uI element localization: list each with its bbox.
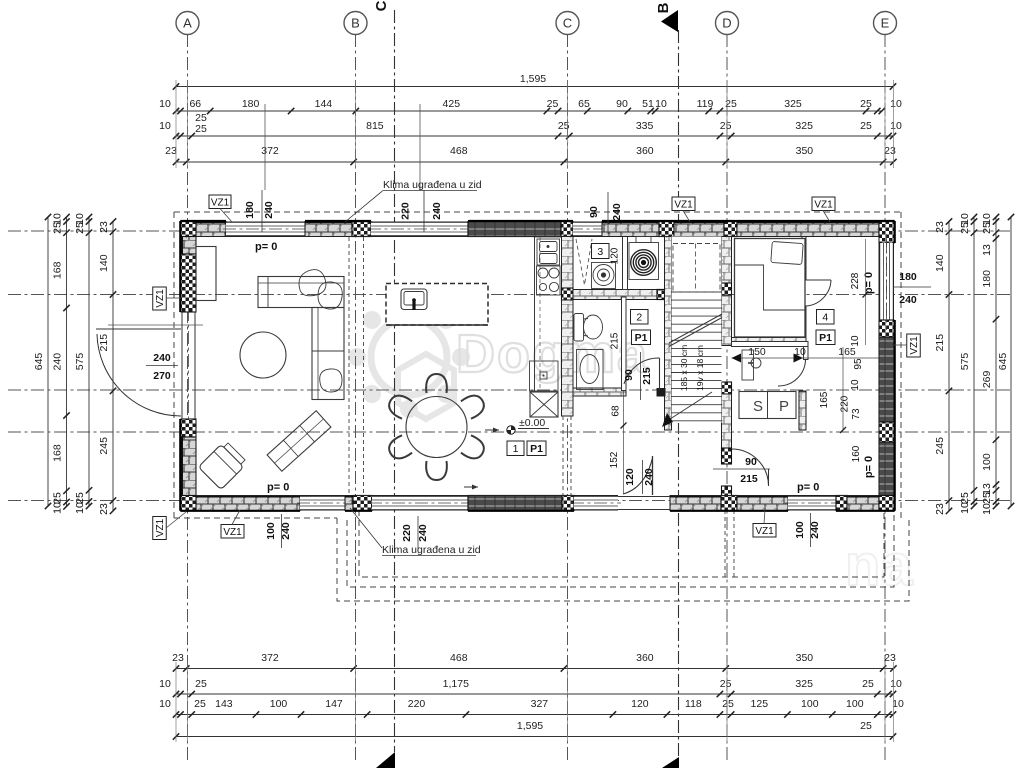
svg-text:25: 25 [547,98,559,110]
front door opening in bottom wall [618,496,670,498]
svg-text:23: 23 [172,652,184,664]
svg-text:10: 10 [890,98,902,110]
kitchen stove 4 burners [537,266,561,295]
front door leaf and swing [652,456,654,495]
svg-text:73: 73 [851,408,862,420]
room number boxes [507,441,524,456]
staircase [672,237,722,424]
svg-text:220: 220 [840,395,851,412]
svg-text:10: 10 [159,698,171,710]
stairs cut line [669,318,722,347]
svg-text:147: 147 [325,698,343,710]
svg-text:360: 360 [636,145,654,157]
svg-text:10: 10 [981,503,993,515]
svg-text:240: 240 [153,352,171,364]
beam dashed lines at grid B [348,237,350,495]
svg-text:25: 25 [959,222,971,234]
svg-text:10: 10 [159,98,171,110]
svg-text:168: 168 [52,261,64,279]
svg-text:10: 10 [52,502,64,514]
svg-text:228: 228 [850,272,861,289]
svg-text:100: 100 [981,453,993,471]
section marker B top [661,10,678,32]
svg-text:25: 25 [558,120,570,132]
kitchen corridor dashed beam [562,416,564,495]
VZ1 leader lines [220,209,232,223]
svg-text:25: 25 [860,98,872,110]
svg-text:180: 180 [899,271,917,283]
svg-text:180: 180 [981,270,993,288]
svg-text:120: 120 [610,247,621,264]
svg-text:245: 245 [98,437,110,455]
svg-text:10: 10 [74,502,86,514]
svg-text:13: 13 [981,244,993,256]
top dimension row 1 [176,110,882,112]
svg-text:B: B [351,16,360,31]
svg-text:C: C [563,16,572,31]
shaft crossed box [530,392,558,417]
svg-text:120: 120 [631,698,649,710]
svg-text:23: 23 [934,503,946,515]
svg-text:350: 350 [796,145,814,157]
wc small room walls [732,342,809,347]
svg-text:D: D [722,16,731,31]
island sink [401,289,427,310]
svg-text:165: 165 [819,391,830,408]
svg-text:10: 10 [890,678,902,690]
svg-text:220: 220 [408,698,426,710]
bed [735,239,806,338]
svg-text:65: 65 [578,98,590,110]
kitchen sink double [537,239,560,265]
small wc washbasin [742,350,754,380]
exterior wall outer edge emphasis (broken at openings) [180,220,894,222]
svg-text:p= 0: p= 0 [255,241,277,253]
svg-text:1: 1 [513,443,519,455]
svg-text:575: 575 [74,353,86,371]
svg-text:p= 0: p= 0 [267,482,289,494]
svg-text:245: 245 [934,437,946,455]
armchair rotated [198,440,247,489]
svg-text:144: 144 [315,98,333,110]
bathroom door leaf and swing [659,358,661,390]
closet back wall stub [799,391,806,430]
svg-text:2: 2 [636,312,642,324]
svg-text:215: 215 [641,367,653,385]
wood stove concentric [629,243,659,280]
left exterior wall [181,222,196,237]
svg-text:215: 215 [610,332,621,349]
svg-text:240: 240 [611,203,623,221]
dining chairs [426,374,447,393]
bottom dimension row overall 1,595 [176,736,893,738]
svg-text:372: 372 [261,652,279,664]
toilet [574,314,584,342]
svg-text:25: 25 [860,720,872,732]
svg-text:140: 140 [98,254,110,272]
svg-text:66: 66 [189,98,201,110]
dimension extension verticals top [175,80,177,168]
svg-text:468: 468 [450,652,468,664]
kitchen low cabinet [530,361,559,391]
svg-text:10: 10 [959,502,971,514]
svg-text:25: 25 [862,678,874,690]
svg-text:180: 180 [244,201,256,219]
svg-text:10: 10 [159,120,171,132]
svg-text:270: 270 [153,370,171,382]
interior wall kitchen/utility vertical [562,237,574,289]
svg-text:1,595: 1,595 [520,73,546,85]
coffee table [240,332,286,378]
bottom dimension row B [176,693,893,695]
svg-text:118: 118 [685,698,702,710]
svg-text:150: 150 [748,346,766,358]
dining table [406,397,467,458]
svg-text:p= 0: p= 0 [863,456,875,478]
svg-text:10: 10 [850,379,861,391]
svg-text:325: 325 [795,678,813,690]
direction arrows small [485,429,499,431]
svg-text:23: 23 [98,503,110,515]
svg-text:645: 645 [33,353,45,371]
interior wall stove/stairs [665,237,672,431]
svg-text:160: 160 [851,445,862,462]
svg-text:10: 10 [655,98,667,110]
svg-text:240: 240 [417,524,429,542]
stairs walking line + arrow [667,392,712,421]
svg-text:468: 468 [450,145,468,157]
svg-text:VZ1: VZ1 [211,197,230,208]
svg-text:168: 168 [52,444,64,462]
entry door opening in left wall [181,312,183,419]
bedroom bottom wall [732,338,807,347]
svg-text:185 x 30 cm: 185 x 30 cm [679,345,689,391]
svg-text:51: 51 [642,98,654,110]
svg-text:240: 240 [643,468,655,486]
svg-text:25: 25 [74,492,86,504]
entry door leaf and swing [96,328,181,330]
utility room folding door dashed [576,239,592,285]
svg-text:215: 215 [740,473,758,485]
svg-text:372: 372 [261,145,279,157]
svg-text:100: 100 [265,522,277,540]
svg-text:90: 90 [623,369,635,381]
svg-text:23: 23 [884,652,896,664]
svg-text:25: 25 [959,492,971,504]
svg-text:100: 100 [801,698,819,710]
svg-text:25: 25 [981,222,993,234]
svg-text:Klima ugrađena u zid: Klima ugrađena u zid [382,544,481,556]
svg-text:25: 25 [722,698,734,710]
svg-text:327: 327 [531,698,549,710]
svg-text:220: 220 [401,524,413,542]
svg-text:25: 25 [720,120,732,132]
svg-text:25: 25 [52,492,64,504]
svg-text:815: 815 [366,120,384,132]
svg-text:p= 0: p= 0 [863,272,875,294]
tv sideboard rotated [267,411,331,472]
svg-text:A: A [183,16,192,31]
bedroom partition + door [802,237,806,281]
svg-text:10: 10 [890,120,902,132]
grid axis lines A-E [187,34,189,762]
svg-text:25: 25 [194,698,206,710]
svg-text:25: 25 [981,492,993,504]
right dimension column [948,222,950,511]
interior wall utility/stove thin [623,237,628,290]
svg-text:269: 269 [981,370,993,388]
interior wall stairs/bedroom [722,237,732,284]
kitchen island [386,284,488,326]
svg-text:119: 119 [697,98,714,110]
svg-text:±0.00: ±0.00 [519,417,545,429]
hall door to right room swing [732,449,769,486]
svg-text:25: 25 [720,678,732,690]
svg-text:P: P [779,398,789,415]
section line C [394,10,396,752]
svg-text:3: 3 [597,246,603,258]
svg-text:240: 240 [431,202,443,220]
svg-text:425: 425 [443,98,461,110]
left dimension column [47,217,49,506]
svg-text:140: 140 [934,254,946,272]
svg-text:S: S [753,398,763,415]
svg-text:240: 240 [899,294,917,306]
svg-text:90: 90 [588,206,600,218]
svg-text:68: 68 [611,405,622,417]
svg-text:100: 100 [794,521,806,539]
svg-text:325: 325 [784,98,802,110]
svg-text:360: 360 [636,652,654,664]
svg-text:VZ1: VZ1 [755,526,774,537]
svg-text:VZ1: VZ1 [909,336,920,355]
terrace / roof overhang dashed rectangles [337,518,909,601]
right exterior wall [879,222,894,244]
VZ1 labels [209,195,231,209]
grid bubbles [176,12,199,35]
svg-text:VZ1: VZ1 [155,289,166,308]
top dimension row overall 1,595 [176,86,893,88]
svg-text:E: E [881,16,890,31]
section marker B bottom [662,757,679,768]
svg-text:575: 575 [959,353,971,371]
S P closet [739,392,796,419]
svg-text:10: 10 [159,678,171,690]
svg-text:P1: P1 [635,332,648,344]
section line B [678,30,680,758]
svg-text:VZ1: VZ1 [155,518,166,537]
horizontal reference dash-dot lines [8,230,1013,232]
svg-text:120: 120 [624,468,636,486]
svg-text:645: 645 [997,353,1009,371]
svg-text:215: 215 [98,334,110,352]
exterior wall inner face lines [196,236,879,238]
svg-text:152: 152 [609,451,620,468]
svg-text:na: na [845,533,913,598]
svg-text:25: 25 [195,678,207,690]
washing machine [592,263,616,289]
svg-text:100: 100 [846,698,864,710]
svg-text:143: 143 [215,698,233,710]
top exterior wall [181,222,196,237]
wc room bottom walls + closet nook [573,388,626,396]
watermark logo [348,296,470,419]
svg-text:4: 4 [822,312,828,324]
svg-text:165: 165 [838,346,856,358]
svg-text:23: 23 [934,221,946,233]
svg-text:P1: P1 [530,443,543,455]
bathroom washbasin [577,350,604,390]
svg-text:25: 25 [74,222,86,234]
svg-text:215: 215 [934,334,946,352]
svg-text:100: 100 [270,698,288,710]
svg-text:23: 23 [98,221,110,233]
svg-text:220: 220 [400,202,412,220]
svg-text:90: 90 [745,456,757,468]
svg-text:VZ1: VZ1 [814,199,833,210]
svg-text:350: 350 [796,652,814,664]
svg-text:1,595: 1,595 [517,720,543,732]
svg-text:25: 25 [860,120,872,132]
top dimension row 3 [176,161,893,163]
section marker C bottom [376,752,395,768]
svg-text:25: 25 [52,222,64,234]
svg-text:VZ1: VZ1 [223,527,242,538]
svg-text:25: 25 [195,123,207,135]
svg-text:p= 0: p= 0 [797,482,819,494]
svg-text:240: 240 [263,201,275,219]
corner sofa [258,277,344,308]
kitchen wall counter [534,237,536,392]
svg-text:10: 10 [850,335,861,347]
wardrobe left wall [196,247,216,301]
svg-text:125: 125 [751,698,769,710]
bottom dimension row A [176,668,893,670]
bedroom door leaf and swing [804,279,831,281]
bottom dimension row C [176,714,893,716]
svg-text:C: C [373,0,390,11]
svg-text:1,175: 1,175 [443,678,469,690]
interior wall utility bottom horizontal [573,290,657,300]
svg-text:10: 10 [892,698,904,710]
sofa cushions [299,270,326,296]
dimension extension verticals bottom [175,662,177,742]
svg-text:95: 95 [853,358,864,370]
bottom exterior wall [181,496,196,511]
svg-text:19v x 18 cm: 19v x 18 cm [695,345,705,391]
outer insulation dashed boundary [174,212,901,520]
svg-text:90: 90 [616,98,628,110]
svg-text:335: 335 [636,120,654,132]
top dimension row 2 [176,135,893,137]
svg-text:23: 23 [165,145,177,157]
wc door swing [778,359,806,386]
svg-text:Klima ugrađena u zid: Klima ugrađena u zid [383,179,482,191]
svg-text:B: B [655,2,672,13]
svg-text:240: 240 [52,353,64,371]
svg-text:325: 325 [795,120,813,132]
svg-text:180: 180 [242,98,260,110]
bathroom right thin wall [622,297,627,391]
svg-text:P1: P1 [819,332,832,344]
svg-text:VZ1: VZ1 [674,199,693,210]
interior wall stairs lower + door + pillar [722,382,732,394]
svg-text:23: 23 [884,145,896,157]
